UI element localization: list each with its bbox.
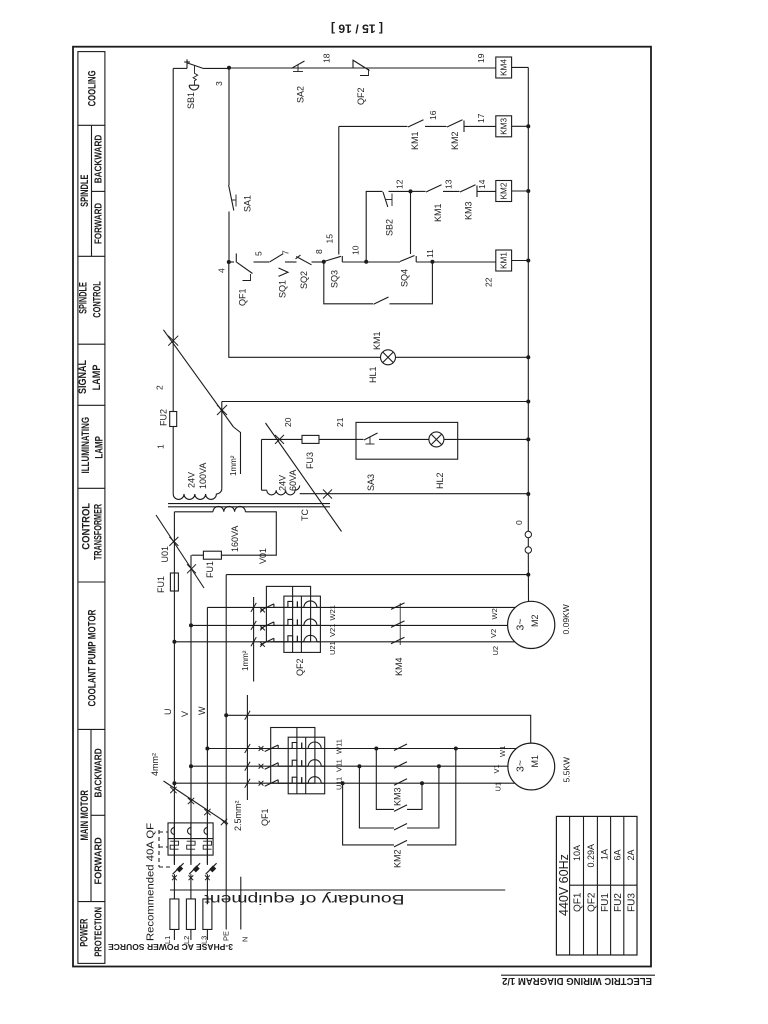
- outer border frame: [73, 47, 651, 967]
- svg-text:HL2: HL2: [435, 472, 445, 489]
- neutral N stub: [240, 877, 242, 930]
- svg-text:Recommended 40A QF: Recommended 40A QF: [146, 823, 157, 941]
- svg-text:SPINDLE: SPINDLE: [79, 175, 91, 207]
- svg-text:KM2: KM2: [393, 849, 403, 868]
- svg-text:FU3: FU3: [626, 893, 637, 912]
- svg-text:10: 10: [351, 245, 361, 255]
- TC secondary 24V 60VA winding: [267, 486, 300, 495]
- TC secondary 24V 100VA winding: [173, 489, 222, 500]
- svg-text:M1: M1: [530, 755, 540, 768]
- svg-text:14: 14: [477, 179, 487, 189]
- svg-text:ILLUMINATING: ILLUMINATING: [80, 417, 92, 474]
- svg-text:U: U: [163, 709, 173, 716]
- limit switch SQ3: [324, 256, 341, 261]
- circuit breaker QF1: [265, 745, 279, 752]
- svg-text:3~: 3~: [515, 619, 527, 631]
- cable mark 1mm2 coolant: [253, 597, 255, 682]
- contactor contacts KM4: [391, 603, 405, 610]
- svg-text:FORWARD: FORWARD: [93, 837, 104, 884]
- crossover link W11-U1: [376, 749, 394, 810]
- phase bus V: [190, 555, 192, 863]
- node 4: [227, 260, 231, 264]
- svg-text:W: W: [197, 706, 207, 715]
- svg-text:13: 13: [444, 179, 454, 189]
- main motor M1: [508, 743, 555, 790]
- interlock contact KM2 (NC): [447, 120, 463, 127]
- svg-text:W11: W11: [335, 739, 344, 754]
- secondary return wire to rail: [222, 401, 529, 403]
- svg-text:3: 3: [214, 81, 224, 86]
- svg-text:22: 22: [484, 277, 494, 287]
- phase bus U: [173, 512, 175, 864]
- header strip: [78, 52, 105, 964]
- PE line: [225, 575, 227, 930]
- svg-text:COOLANT PUMP MOTOR: COOLANT PUMP MOTOR: [87, 609, 99, 706]
- rung KM3 coil from node 15: [339, 125, 408, 127]
- svg-text:19: 19: [476, 53, 486, 63]
- coolant pump motor M2: [508, 601, 555, 648]
- svg-text:U01: U01: [160, 546, 170, 563]
- motor protection breaker QF2: [260, 604, 274, 611]
- cable mark 1mm2 lamp wires: [266, 423, 342, 532]
- svg-text:U1: U1: [494, 782, 503, 792]
- 60VA return wire to rail: [300, 493, 529, 495]
- crossover link U11-W1: [343, 783, 394, 845]
- svg-text:440V 60Hz: 440V 60Hz: [557, 854, 571, 916]
- svg-text:3~: 3~: [515, 760, 527, 772]
- svg-text:ELECTRIC WIRING DIAGRAM 1/2: ELECTRIC WIRING DIAGRAM 1/2: [502, 975, 652, 986]
- svg-text:LAMP: LAMP: [91, 365, 103, 391]
- coolant branch wires from buses: [207, 606, 515, 608]
- breaker aux contact QF2: [352, 60, 354, 69]
- svg-text:100VA: 100VA: [198, 463, 208, 489]
- svg-text:15: 15: [325, 234, 335, 244]
- breaker aux contact QF1: [235, 254, 237, 263]
- cable mark 1mm2 control feed: [163, 330, 233, 427]
- main switch QF (recommended 40A): [168, 823, 213, 855]
- node 3: [227, 66, 231, 70]
- svg-text:FU1: FU1: [205, 561, 215, 578]
- svg-text:SA3: SA3: [366, 474, 376, 491]
- svg-text:SQ3: SQ3: [330, 270, 340, 288]
- svg-text:KM1: KM1: [433, 203, 443, 222]
- svg-text:QF1: QF1: [238, 288, 248, 306]
- svg-text:4mm²: 4mm²: [150, 753, 160, 776]
- svg-text:1A: 1A: [600, 849, 610, 860]
- svg-text:TC: TC: [300, 509, 310, 521]
- svg-text:SIGNAL: SIGNAL: [77, 360, 89, 394]
- svg-text:FORWARD: FORWARD: [93, 203, 104, 244]
- switch SA2: [291, 67, 293, 69]
- svg-text:PE: PE: [222, 931, 231, 941]
- svg-text:V01: V01: [258, 548, 268, 564]
- self-hold contact KM1 (bypass of SQ3/SQ4): [324, 262, 373, 304]
- TC primary 160VA winding: [213, 506, 245, 511]
- svg-text:CONTROL: CONTROL: [91, 281, 103, 318]
- svg-text:COOLING: COOLING: [86, 70, 98, 106]
- fuse FU1 (primary, V01 leg): [203, 551, 221, 559]
- node 15 wire to KM3 rung: [338, 126, 340, 254]
- rung SB2 from node 10: [366, 191, 382, 262]
- svg-text:SB1: SB1: [186, 92, 196, 109]
- svg-text:QF1: QF1: [260, 808, 270, 826]
- svg-text:N: N: [241, 937, 250, 942]
- svg-text:W1: W1: [498, 746, 507, 757]
- svg-text:1mm²: 1mm²: [241, 650, 250, 671]
- svg-text:10A: 10A: [572, 845, 582, 861]
- phase bus W: [206, 607, 208, 863]
- svg-text:KM1: KM1: [500, 252, 509, 269]
- wire node3 branch to SA1: [228, 68, 230, 185]
- reversing contacts KM3/KM2: [394, 744, 407, 751]
- svg-text:SPINDLE: SPINDLE: [77, 282, 89, 314]
- node 8: [322, 260, 326, 264]
- svg-text:KM1: KM1: [372, 331, 382, 350]
- svg-text:2: 2: [155, 385, 165, 390]
- section MAIN MOTOR FORWARD/BACKWARD: [90, 729, 92, 901]
- svg-text:2A: 2A: [626, 849, 636, 860]
- supply fuses: [170, 899, 179, 930]
- svg-text:U2: U2: [491, 646, 500, 656]
- svg-text:12: 12: [395, 179, 405, 189]
- svg-text:18: 18: [322, 53, 332, 63]
- svg-text:SQ2: SQ2: [299, 271, 309, 289]
- cable mark for transformer primary wires: [156, 515, 204, 588]
- svg-text:Boundary of equipment: Boundary of equipment: [204, 892, 404, 908]
- svg-text:U21: U21: [328, 641, 337, 655]
- svg-text:W21: W21: [328, 605, 337, 620]
- main motor branch wires from buses: [207, 748, 516, 750]
- M1 earth wire from PE: [226, 715, 531, 743]
- svg-text:6A: 6A: [613, 849, 623, 860]
- illuminating lamp HL2: [429, 432, 444, 447]
- transformer TC core: [168, 503, 330, 505]
- svg-text:V2: V2: [489, 629, 498, 638]
- contactor coil KM3: [496, 116, 512, 137]
- QF dashed linkage: [158, 830, 160, 867]
- switch SA1: [229, 185, 234, 211]
- pushbutton SB1 (emergency stop NC): [173, 67, 187, 69]
- node 10: [364, 260, 368, 264]
- svg-text:QF2: QF2: [356, 87, 366, 105]
- spindle control chain wire: [229, 261, 234, 263]
- svg-text:1: 1: [156, 444, 166, 449]
- svg-text:W2: W2: [490, 608, 499, 619]
- svg-text:17: 17: [476, 113, 486, 123]
- svg-text:0: 0: [514, 520, 524, 525]
- svg-text:5.5KW: 5.5KW: [562, 757, 572, 783]
- svg-text:8: 8: [314, 249, 324, 254]
- rating table 440V 60Hz: [556, 816, 637, 955]
- svg-text:20: 20: [283, 417, 293, 427]
- svg-text:SQ4: SQ4: [400, 269, 410, 287]
- svg-text:KM3: KM3: [393, 787, 403, 806]
- svg-text:BACKWARD: BACKWARD: [93, 748, 104, 797]
- svg-text:KM3: KM3: [464, 201, 474, 220]
- svg-text:QF2: QF2: [587, 892, 598, 912]
- contactor coil KM2: [496, 181, 512, 202]
- svg-text:[ 15 / 16 ]: [ 15 / 16 ]: [331, 22, 383, 34]
- wire node 12 to SQ4: [410, 191, 412, 254]
- svg-text:V11: V11: [335, 759, 344, 772]
- fuse FU2: [170, 412, 177, 427]
- cable mark 4mm2 supply: [164, 781, 229, 824]
- svg-text:KM3: KM3: [500, 117, 509, 134]
- svg-text:1mm²: 1mm²: [229, 455, 238, 476]
- svg-text:SQ1: SQ1: [278, 280, 288, 298]
- svg-text:QF2: QF2: [295, 658, 305, 676]
- svg-text:0.29A: 0.29A: [586, 844, 596, 868]
- svg-text:SB2: SB2: [385, 219, 395, 236]
- svg-text:21: 21: [335, 417, 345, 427]
- svg-text:FU1: FU1: [156, 576, 166, 593]
- node 11: [430, 260, 434, 264]
- switch SA3: [356, 438, 364, 440]
- svg-text:16: 16: [428, 110, 438, 120]
- svg-text:SA1: SA1: [243, 195, 253, 212]
- node 12: [409, 189, 413, 193]
- pushbutton SB2 (NO): [383, 192, 388, 207]
- contactor coil KM1: [496, 250, 512, 271]
- limit switch SQ2: [296, 255, 301, 259]
- svg-text:KM4: KM4: [500, 59, 509, 76]
- svg-text:5: 5: [254, 251, 264, 256]
- svg-text:60VA: 60VA: [288, 470, 298, 491]
- control 24V feed wire / node line x=173: [172, 68, 174, 340]
- svg-text:KM1: KM1: [410, 131, 420, 150]
- svg-text:BACKWARD: BACKWARD: [94, 135, 105, 184]
- svg-text:SA2: SA2: [296, 86, 306, 103]
- svg-text:FU1: FU1: [600, 893, 611, 912]
- contact KM1 (NO, KM2 rung): [426, 185, 442, 192]
- fuse FU1 on U bus: [170, 573, 178, 591]
- svg-text:3-PHASE AC POWER SOURCE: 3-PHASE AC POWER SOURCE: [108, 942, 233, 952]
- svg-text:160VA: 160VA: [230, 526, 240, 552]
- svg-text:V1: V1: [492, 764, 501, 773]
- svg-text:TRANSFORMER: TRANSFORMER: [92, 504, 104, 560]
- svg-text:0.09KW: 0.09KW: [561, 604, 571, 634]
- svg-text:HL1: HL1: [368, 366, 378, 383]
- svg-text:MAIN MOTOR: MAIN MOTOR: [79, 790, 91, 840]
- cable mark 2.5mm2 motor cable: [246, 695, 248, 800]
- svg-text:CONTROL: CONTROL: [81, 503, 93, 550]
- control common rail (0): [527, 67, 529, 531]
- svg-text:FU2: FU2: [613, 893, 624, 912]
- svg-text:KM2: KM2: [450, 131, 460, 150]
- section SPINDLE FORWARD/BACKWARD: [91, 125, 93, 256]
- contact KM1 (NO, KM3 rung): [408, 120, 424, 127]
- svg-text:KM2: KM2: [500, 182, 509, 199]
- svg-text:LAMP: LAMP: [93, 436, 105, 459]
- svg-text:QF1: QF1: [573, 892, 584, 912]
- svg-text:PROTECTION: PROTECTION: [93, 907, 104, 957]
- interlock contact KM3 (NC): [460, 185, 476, 192]
- svg-text:4: 4: [217, 268, 227, 273]
- lamp assembly box: [356, 422, 458, 459]
- svg-text:11: 11: [425, 249, 435, 258]
- svg-text:2.5mm²: 2.5mm²: [233, 800, 243, 831]
- svg-text:POWER: POWER: [79, 919, 91, 947]
- svg-text:FU3: FU3: [305, 452, 315, 469]
- svg-text:7: 7: [281, 250, 291, 255]
- illumination feed wire with fuse FU3: [262, 438, 302, 440]
- svg-text:V: V: [180, 711, 190, 717]
- svg-text:KM4: KM4: [394, 657, 404, 676]
- svg-text:FU2: FU2: [159, 409, 169, 426]
- limit switch SQ4: [400, 256, 415, 262]
- link V11-V1: [359, 766, 394, 828]
- PE top run to rail: [226, 574, 528, 576]
- limit switch SQ1: [270, 254, 283, 262]
- boundary of equipment line: [170, 889, 505, 891]
- svg-text:24V: 24V: [278, 475, 288, 491]
- svg-text:M2: M2: [530, 614, 540, 627]
- contactor coil KM4: [496, 57, 512, 78]
- signal lamp HL1 branch: [229, 262, 381, 357]
- svg-text:V21: V21: [328, 624, 337, 637]
- svg-text:24V: 24V: [187, 472, 197, 488]
